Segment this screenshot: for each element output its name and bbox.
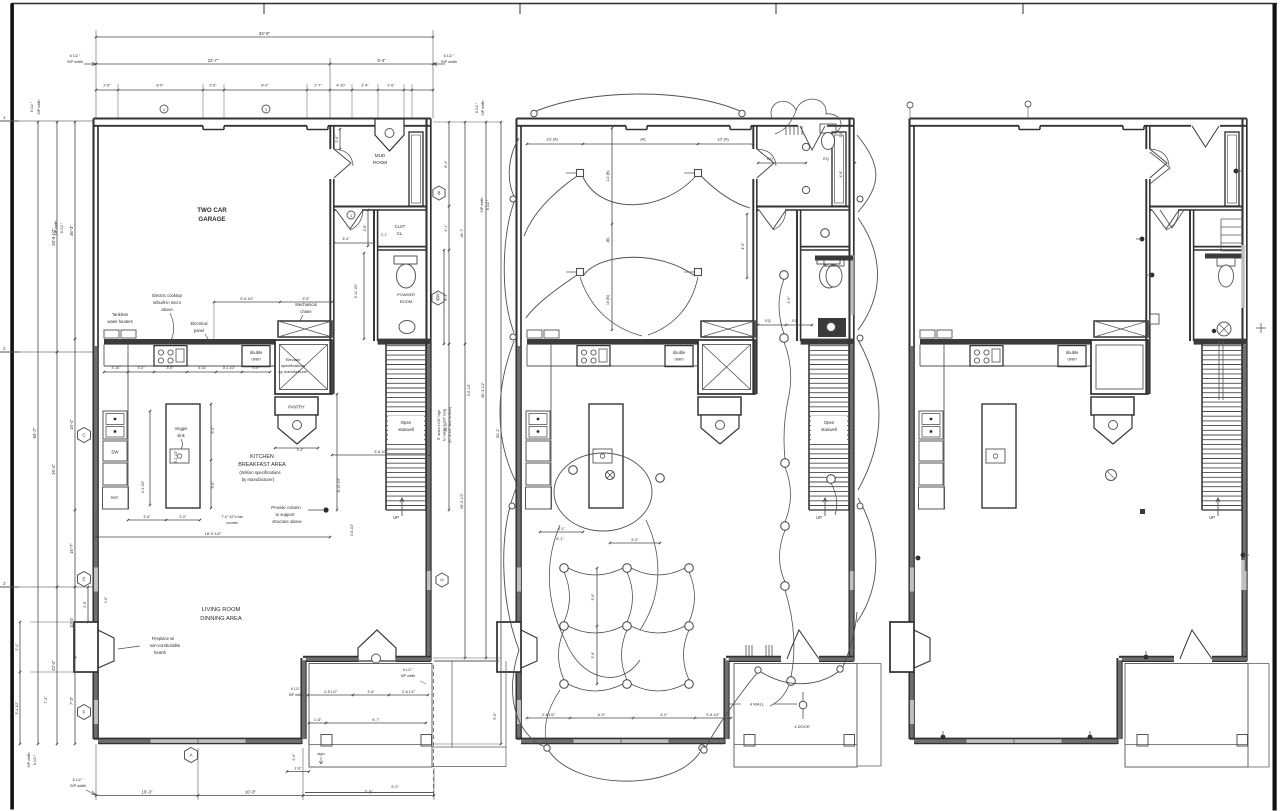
svg-text:4'-9": 4'-9" (787, 296, 791, 304)
svg-text:32'-6": 32'-6" (259, 31, 271, 36)
svg-text:by manufacturer: by manufacturer (279, 369, 309, 374)
svg-text:2'-6": 2'-6" (387, 84, 395, 88)
svg-text:4'-5 1/2": 4'-5 1/2" (324, 690, 338, 694)
svg-text:structure above: structure above (272, 519, 302, 524)
svg-text:double: double (250, 350, 263, 355)
svg-text:1: 1 (350, 214, 352, 218)
svg-text:SIP width: SIP width (481, 100, 485, 115)
svg-text:4 WALL: 4 WALL (750, 702, 765, 707)
svg-text:SIP width: SIP width (441, 60, 457, 64)
svg-text:4 DOOR: 4 DOOR (794, 724, 809, 729)
svg-text:16'-4": 16'-4" (69, 419, 74, 430)
svg-text:(A): (A) (640, 137, 646, 142)
svg-text:Provide column: Provide column (271, 505, 301, 510)
svg-text:ROOM: ROOM (373, 160, 387, 165)
svg-text:SIP width: SIP width (480, 197, 484, 212)
svg-text:6'-0": 6'-0" (598, 713, 606, 717)
svg-text:36'-3": 36'-3" (69, 225, 74, 236)
svg-text:DINNING AREA: DINNING AREA (200, 616, 242, 622)
svg-text:4'-1": 4'-1" (558, 527, 566, 531)
svg-text:3'-6 1/2": 3'-6 1/2" (374, 450, 388, 454)
svg-text:SIP width: SIP width (27, 752, 31, 767)
svg-text:Mechanical: Mechanical (295, 302, 316, 307)
svg-text:above: above (161, 307, 173, 312)
svg-text:Fireplace w/: Fireplace w/ (152, 636, 175, 641)
svg-text:3'-1 1/2": 3'-1 1/2" (15, 701, 19, 715)
svg-text:9'-9": 9'-9" (302, 297, 310, 301)
svg-text:8'-4": 8'-4" (444, 160, 448, 168)
svg-text:IT nears #134" high: IT nears #134" high (437, 410, 441, 440)
svg-text:1/2 (B): 1/2 (B) (606, 170, 610, 182)
svg-text:6 1/2 ": 6 1/2 " (70, 54, 81, 58)
svg-text:3'-6": 3'-6" (143, 515, 151, 519)
svg-text:9'-6 1/2": 9'-6 1/2" (240, 297, 254, 301)
svg-text:TWO CAR: TWO CAR (197, 207, 227, 214)
svg-text:MUD: MUD (375, 153, 386, 158)
svg-text:3'-0": 3'-0" (167, 366, 175, 370)
svg-text:6 1/2 ": 6 1/2 " (486, 199, 490, 210)
svg-text:6 1/2 ": 6 1/2 " (33, 754, 37, 765)
svg-text:28'-9 1/2": 28'-9 1/2" (51, 228, 56, 246)
svg-text:10 (B): 10 (B) (606, 294, 610, 305)
svg-text:8'-10 1/4": 8'-10 1/4" (337, 477, 341, 493)
svg-text:8'-4": 8'-4" (444, 293, 448, 301)
svg-text:oven: oven (251, 357, 261, 362)
svg-text:chase: chase (300, 309, 312, 314)
svg-text:3'-6 1/2": 3'-6 1/2" (467, 383, 471, 397)
svg-text:3'-6 1/2": 3'-6 1/2" (402, 690, 416, 694)
svg-text:3'-8 1/2": 3'-8 1/2" (706, 713, 720, 717)
svg-text:1'-6": 1'-6" (104, 596, 108, 603)
svg-text:5'-9": 5'-9" (591, 651, 595, 659)
svg-text:6 1/2 ": 6 1/2 " (475, 102, 479, 113)
svg-text:Electric cooktop: Electric cooktop (152, 293, 182, 298)
svg-text:(Wilson specifications: (Wilson specifications (239, 470, 280, 475)
svg-text:SIP width: SIP width (37, 99, 41, 114)
svg-text:4'-10": 4'-10" (336, 84, 346, 88)
svg-text:50'-2": 50'-2" (496, 428, 500, 438)
svg-text:2'-4": 2'-4" (15, 643, 19, 651)
svg-text:to inside # 109" long: to inside # 109" long (443, 409, 447, 441)
svg-text:9'-0": 9'-0" (211, 481, 215, 489)
svg-text:A: A (189, 753, 192, 758)
svg-text:2'-6": 2'-6" (103, 84, 111, 88)
svg-text:B: B (437, 191, 440, 196)
svg-text:4'-9": 4'-9" (741, 242, 745, 250)
svg-text:Electrical: Electrical (191, 321, 208, 326)
svg-text:9'-0": 9'-0" (391, 785, 399, 789)
svg-text:DW: DW (112, 450, 119, 455)
svg-text:EQ: EQ (792, 319, 798, 323)
svg-text:double: double (673, 350, 686, 355)
svg-text:10'-3": 10'-3" (245, 790, 256, 795)
svg-text:UP: UP (816, 515, 822, 520)
svg-text:4'-9": 4'-9" (839, 170, 843, 178)
svg-text:8'-0": 8'-0" (156, 84, 164, 88)
svg-text:6 1/2 ": 6 1/2 " (30, 101, 34, 112)
svg-text:5'-2": 5'-2" (343, 237, 351, 241)
svg-text:SIP width: SIP width (289, 693, 304, 697)
svg-text:Elevator: Elevator (286, 357, 301, 362)
svg-text:2'-6": 2'-6" (292, 753, 296, 761)
svg-text:3'-8 1/2": 3'-8 1/2" (542, 713, 556, 717)
svg-text:non-combustible: non-combustible (150, 643, 181, 648)
svg-text:panel: panel (194, 328, 204, 333)
svg-text:sink: sink (177, 433, 185, 438)
svg-text:specifications: specifications (281, 363, 305, 368)
svg-text:9'-7": 9'-7" (372, 717, 380, 722)
svg-text:CLST: CLST (395, 224, 406, 229)
svg-text:to support: to support (275, 512, 295, 517)
svg-text:hearth: hearth (154, 650, 167, 655)
svg-text:2'-6": 2'-6" (335, 135, 339, 143)
svg-text:stairwell: stairwell (398, 427, 414, 432)
svg-text:(B): (B) (606, 237, 610, 243)
svg-text:5'-0": 5'-0" (631, 538, 639, 542)
svg-text:16'-7": 16'-7" (69, 543, 74, 554)
svg-text:8'-0": 8'-0" (261, 84, 269, 88)
svg-text:8'-2 1/2": 8'-2 1/2" (174, 450, 178, 464)
svg-text:SIP width: SIP width (401, 674, 416, 678)
svg-text:6 1/2 ": 6 1/2 " (403, 668, 414, 672)
svg-text:1'-6": 1'-6" (294, 767, 302, 771)
svg-text:6'-10 1/2": 6'-10 1/2" (354, 283, 358, 298)
svg-text:PANTRY: PANTRY (288, 405, 305, 410)
svg-text:6 1/2: 6 1/2 (198, 366, 205, 370)
svg-text:3'-6 1/2": 3'-6 1/2" (350, 523, 354, 536)
svg-text:2'-6": 2'-6" (209, 84, 217, 88)
svg-text:REF.: REF. (111, 495, 120, 500)
svg-text:F: F (83, 710, 86, 715)
svg-text:6 1/2 ": 6 1/2 " (436, 290, 440, 300)
svg-text:18'-9 1/2": 18'-9 1/2" (205, 531, 222, 536)
svg-text:stairwell: stairwell (821, 427, 837, 432)
svg-text:1/2 (A): 1/2 (A) (546, 137, 558, 142)
svg-text:3'-4": 3'-4" (297, 448, 305, 452)
svg-text:6 1/2 ": 6 1/2 " (60, 222, 64, 233)
svg-text:oven: oven (1067, 357, 1077, 362)
svg-text:22'-7": 22'-7" (208, 58, 219, 63)
svg-text:7'-3": 7'-3" (44, 696, 48, 704)
svg-text:CL.: CL. (397, 231, 404, 236)
svg-text:7'-3": 7'-3" (69, 696, 74, 705)
svg-text:w/built-in micro: w/built-in micro (153, 300, 182, 305)
svg-text:7'-0" 42"h bar: 7'-0" 42"h bar (221, 515, 243, 519)
svg-text:3'-0": 3'-0" (138, 366, 146, 370)
svg-text:2'-8": 2'-8" (839, 130, 843, 138)
svg-text:5'-9": 5'-9" (591, 593, 595, 601)
svg-text:3'-3 1/2": 3'-3 1/2" (141, 480, 145, 493)
svg-text:6 1/2 ": 6 1/2 " (291, 687, 302, 691)
svg-text:16'-4": 16'-4" (51, 464, 56, 475)
svg-text:UP: UP (393, 515, 399, 520)
svg-text:GARAGE: GARAGE (198, 216, 225, 223)
svg-text:KITCHEN: KITCHEN (250, 454, 274, 460)
svg-text:1: 1 (265, 108, 267, 112)
svg-text:9'-4": 9'-4" (377, 58, 386, 63)
svg-text:4'-1": 4'-1" (444, 224, 448, 232)
svg-text:6'-0": 6'-0" (660, 713, 668, 717)
svg-text:6 1/2 ": 6 1/2 " (444, 54, 455, 58)
svg-text:18'-7": 18'-7" (460, 228, 464, 238)
svg-text:UP: UP (1209, 515, 1215, 520)
svg-text:9'-0": 9'-0" (211, 426, 215, 434)
svg-text:water heaters: water heaters (107, 319, 132, 324)
svg-text:22'-4": 22'-4" (51, 660, 56, 671)
svg-text:2'-8": 2'-8" (363, 224, 367, 232)
svg-text:1/2 (A): 1/2 (A) (717, 137, 729, 142)
svg-text:2'-1": 2'-1" (381, 233, 388, 237)
svg-text:8'-1": 8'-1" (556, 537, 564, 541)
svg-text:36'-3 1/2": 36'-3 1/2" (481, 381, 485, 398)
svg-text:EQ: EQ (767, 157, 773, 161)
svg-text:BREAKFAST AREA: BREAKFAST AREA (238, 462, 286, 468)
svg-text:by manufacturer): by manufacturer) (242, 477, 275, 482)
svg-text:60'-2": 60'-2" (32, 427, 37, 438)
svg-text:2'-7": 2'-7" (314, 84, 322, 88)
svg-text:(97'-8 1/4" floor to floor): (97'-8 1/4" floor to floor) (448, 407, 452, 444)
svg-text:6 1/2 ": 6 1/2 " (73, 778, 84, 782)
svg-text:EQ: EQ (765, 319, 771, 323)
svg-text:sign: sign (317, 751, 324, 756)
svg-text:counter: counter (226, 521, 239, 525)
svg-text:Tankless: Tankless (112, 312, 128, 317)
svg-text:2'-0": 2'-0" (179, 515, 187, 519)
svg-text:5'-0": 5'-0" (493, 712, 497, 720)
svg-text:1'-8": 1'-8" (314, 718, 322, 722)
svg-text:oven: oven (674, 357, 684, 362)
svg-text:EQ: EQ (823, 157, 829, 161)
svg-text:Open: Open (824, 420, 835, 425)
svg-text:2'-4": 2'-4" (83, 600, 87, 608)
svg-text:Veggie: Veggie (175, 426, 188, 431)
svg-text:SIP width: SIP width (70, 784, 86, 788)
svg-text:POWDER: POWDER (397, 292, 415, 297)
svg-text:H: H (440, 578, 443, 583)
svg-text:10'-3": 10'-3" (142, 790, 153, 795)
svg-text:Open: Open (401, 420, 412, 425)
svg-text:28'-9 1/2": 28'-9 1/2" (460, 492, 464, 509)
svg-text:3'-6": 3'-6" (367, 690, 375, 694)
svg-text:ROOM: ROOM (400, 299, 412, 304)
svg-text:double: double (1066, 350, 1079, 355)
svg-text:3'-1 1/2": 3'-1 1/2" (223, 366, 237, 370)
svg-text:SIP width: SIP width (67, 60, 83, 64)
svg-text:7'-6": 7'-6" (364, 790, 373, 795)
svg-text:1: 1 (163, 108, 165, 112)
svg-text:LIVING ROOM: LIVING ROOM (202, 607, 241, 613)
svg-text:2'-10": 2'-10" (112, 366, 122, 370)
svg-text:E: E (82, 577, 85, 582)
svg-text:2'-4": 2'-4" (361, 84, 369, 88)
svg-text:3'-0": 3'-0" (253, 366, 261, 370)
svg-text:10'-4": 10'-4" (69, 617, 74, 628)
